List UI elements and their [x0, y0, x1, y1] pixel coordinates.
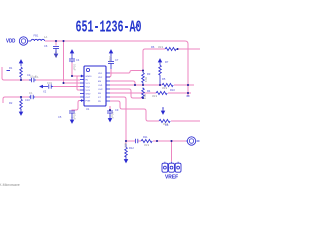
svg-text:49.9: 49.9: [144, 143, 150, 147]
svg-text:R4: R4: [147, 89, 151, 93]
svg-text:OUT: OUT: [86, 97, 91, 99]
svg-text:VREF: VREF: [165, 175, 179, 181]
svg-text:49.9: 49.9: [158, 45, 164, 49]
svg-text:C6: C6: [44, 44, 48, 48]
svg-text:FB1: FB1: [34, 34, 39, 38]
svg-text:R3: R3: [147, 72, 151, 76]
svg-text:X2: X2: [43, 90, 47, 94]
svg-text:GND: GND: [86, 94, 91, 96]
svg-text:R10: R10: [170, 88, 175, 92]
svg-text:VDD: VDD: [6, 38, 16, 44]
svg-text:49.9: 49.9: [143, 94, 147, 100]
svg-text:49.9: 49.9: [152, 94, 158, 98]
svg-text:0.1uF: 0.1uF: [73, 64, 77, 71]
svg-text:0.1uF: 0.1uF: [30, 75, 37, 79]
svg-text:IN: IN: [86, 80, 89, 82]
svg-text:PGN: PGN: [86, 101, 91, 103]
svg-text:PD: PD: [98, 101, 101, 103]
svg-text:49.9: 49.9: [162, 86, 168, 90]
svg-text:VC1: VC1: [86, 83, 91, 85]
svg-text:GND1: GND1: [86, 76, 93, 78]
svg-text:R5: R5: [162, 77, 166, 81]
svg-text:49.9: 49.9: [124, 143, 128, 149]
svg-text:0.1: 0.1: [29, 91, 33, 95]
svg-text:VD1: VD1: [98, 73, 103, 75]
svg-text:R6: R6: [151, 45, 155, 49]
svg-text:R12: R12: [129, 146, 134, 150]
svg-text:OU1: OU1: [98, 85, 103, 87]
svg-text:VD2: VD2: [98, 77, 103, 79]
svg-text:ST: ST: [98, 97, 101, 99]
svg-text:1A: 1A: [44, 35, 47, 39]
svg-text:X-Microwave: X-Microwave: [0, 183, 20, 187]
svg-text:C10: C10: [25, 98, 30, 102]
svg-text:C5: C5: [58, 115, 62, 119]
svg-text:C7: C7: [115, 58, 119, 62]
svg-text:10uF: 10uF: [54, 52, 58, 58]
svg-text:49.9: 49.9: [144, 77, 148, 83]
svg-text:EN: EN: [98, 81, 101, 83]
svg-text:FB: FB: [98, 93, 101, 95]
svg-text:C4: C4: [76, 58, 80, 62]
svg-text:49.9: 49.9: [163, 122, 169, 126]
svg-text:0.01: 0.01: [47, 81, 53, 85]
svg-text:0.1uF: 0.1uF: [111, 112, 115, 119]
svg-text:U1: U1: [86, 107, 90, 111]
svg-text:0.1uF: 0.1uF: [73, 113, 77, 120]
svg-text:R11: R11: [143, 135, 148, 139]
svg-text:R2: R2: [9, 101, 13, 105]
svg-text:C9: C9: [115, 108, 119, 112]
svg-text:R1: R1: [9, 66, 13, 70]
svg-text:OU2: OU2: [98, 89, 103, 91]
svg-text:R7: R7: [165, 60, 169, 64]
svg-text:651-1236-A0: 651-1236-A0: [76, 17, 142, 36]
svg-text:VC3: VC3: [86, 90, 91, 92]
svg-text:VC2: VC2: [86, 87, 91, 89]
svg-text:0.1uF: 0.1uF: [108, 56, 112, 63]
